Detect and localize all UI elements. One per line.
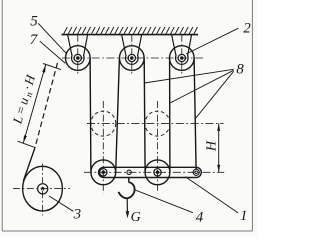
traverse bar (item 1) [99, 167, 202, 177]
ceiling line [62, 34, 199, 36]
pulley B outer [120, 46, 145, 71]
svg-text:3: 3 [73, 207, 82, 223]
upper pulley C group (item 2 points here) [170, 35, 195, 75]
rope fall 5 (dead end to bar) [194, 59, 196, 170]
dim L arrowhead top [42, 64, 46, 72]
phantom pulley E (upper position) [145, 111, 170, 136]
dim H arrow bottom [217, 165, 220, 173]
bar right hole [193, 169, 199, 175]
dimension line H [218, 123, 220, 172]
vertical center line pulley B [131, 35, 133, 75]
dim L tick top [43, 64, 61, 70]
bracket legs pulley B [122, 35, 126, 56]
border frame right [251, 0, 253, 231]
vertical center line pulley A [77, 35, 79, 75]
vertical center line pulley C [181, 35, 183, 75]
upper block U1 (pulley 5 group) [66, 35, 91, 75]
leader 2 [186, 28, 238, 54]
svg-text:2: 2 [243, 21, 251, 37]
svg-text:H: H [204, 140, 219, 152]
rope fall 3 [143, 59, 146, 173]
dimension line L [23, 64, 46, 143]
leader 7 [40, 41, 66, 63]
leader 3 [49, 196, 73, 211]
leader 5 [38, 23, 67, 54]
rope to winch (solid lower part) [23, 148, 34, 181]
bar pin hole (hook pin) [127, 170, 131, 174]
top axis center line [62, 57, 203, 59]
bracket legs pulley C [172, 35, 176, 56]
svg-text:7: 7 [30, 32, 39, 48]
hauling rope dashed part [35, 63, 58, 148]
ceiling hatching [64, 27, 198, 34]
rope fall 4 [169, 59, 171, 173]
upper pulley B group [120, 35, 145, 75]
dim L arrowhead bottom [23, 135, 27, 143]
svg-text:8: 8 [236, 61, 244, 77]
yoke arc pulley B [126, 55, 139, 64]
lower block vertical center line D [102, 101, 104, 194]
pulley C hub [178, 54, 185, 61]
yoke arc pulley A [72, 55, 85, 64]
phantom axis center line [87, 122, 224, 124]
svg-text:G: G [131, 210, 141, 225]
svg-text:4: 4 [196, 209, 204, 225]
lower axis center line [84, 171, 224, 173]
yoke arc pulley C [176, 55, 189, 64]
pulley B hub [128, 54, 135, 61]
svg-text:5: 5 [30, 14, 38, 30]
border frame left [1, 0, 3, 231]
leader 8c [195, 71, 233, 118]
load arrow G shaft [126, 198, 128, 212]
winch horizontal center line [13, 188, 70, 190]
svg-text:1: 1 [240, 208, 248, 224]
pulley A hub [74, 54, 81, 61]
load arrow G head [126, 211, 130, 218]
phantom pulley D (upper position) [91, 111, 116, 136]
lower block vertical center line E [157, 101, 159, 194]
border frame bottom [2, 230, 252, 232]
rope fall 1 [89, 59, 92, 173]
winch vertical center line [42, 164, 44, 216]
pulley A outer [66, 46, 91, 71]
leader 4 [134, 190, 193, 213]
leader 8b [170, 70, 234, 103]
pulley C outer [170, 46, 195, 71]
leader 1 [185, 177, 238, 213]
hook curve [118, 182, 134, 198]
winch drum (item 3) [23, 166, 63, 211]
dim H arrow top [217, 123, 220, 130]
dim L tick bottom [18, 141, 36, 147]
leader 8a [144, 69, 233, 83]
rope fall 2 [116, 59, 120, 173]
lower pulley E [145, 160, 170, 185]
bracket legs pulley A [68, 35, 72, 56]
lower pulley D [91, 160, 116, 185]
hook stem [128, 178, 130, 183]
